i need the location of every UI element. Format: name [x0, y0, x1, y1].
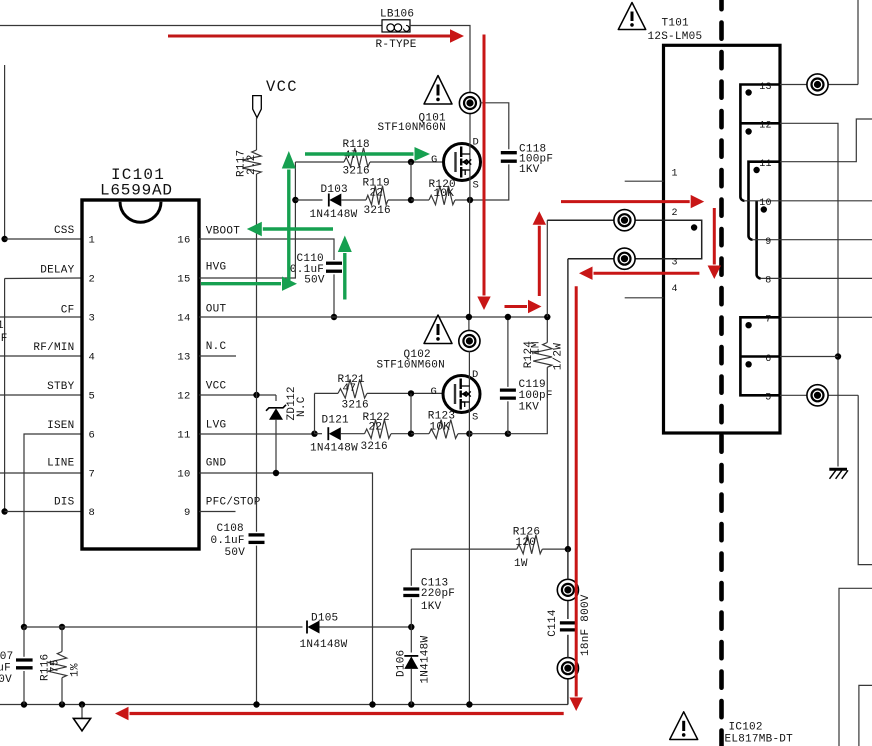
- svg-text:3: 3: [672, 258, 678, 269]
- svg-text:3216: 3216: [361, 441, 388, 453]
- svg-text:1%: 1%: [70, 663, 82, 677]
- red current arrow right to T101 pin2: [561, 200, 690, 203]
- wire row5 out: [780, 394, 858, 396]
- svg-text:D106: D106: [396, 650, 408, 677]
- svg-text:IC102: IC102: [729, 721, 763, 733]
- T101 winding 13-10: [740, 85, 780, 201]
- resistor R123: [429, 420, 458, 439]
- wire R122 to junction: [391, 433, 411, 435]
- svg-text:10: 10: [177, 469, 190, 481]
- svg-text:R-TYPE: R-TYPE: [376, 39, 417, 51]
- junction Q102 source: [466, 431, 472, 437]
- T101 polarity dots secondary: [745, 89, 751, 95]
- green arrow up C110 side: [343, 253, 346, 300]
- capacitor C110: [326, 262, 342, 265]
- wire R126 row: [411, 548, 517, 550]
- svg-text:7: 7: [765, 315, 771, 326]
- wire R119 to junction: [388, 199, 411, 201]
- transformer T101 body: [664, 45, 781, 433]
- svg-text:1N4148W: 1N4148W: [420, 635, 432, 683]
- red current arrow left from pin3: [594, 272, 700, 275]
- svg-text:VBOOT: VBOOT: [206, 226, 240, 238]
- svg-text:GND: GND: [206, 458, 227, 470]
- resistor R121: [338, 379, 367, 398]
- svg-text:EL817MB-DT: EL817MB-DT: [725, 733, 794, 745]
- svg-text:DELAY: DELAY: [40, 265, 74, 277]
- svg-text:11: 11: [759, 159, 772, 170]
- diode D105: [306, 621, 308, 634]
- svg-text:D121: D121: [322, 415, 350, 427]
- svg-text:1KV: 1KV: [421, 601, 442, 613]
- green arrow up HVG riser: [287, 170, 290, 287]
- transistor Q102: [443, 376, 480, 413]
- wire row11 out: [780, 119, 872, 162]
- svg-text:1: 1: [89, 235, 96, 247]
- wire row13 riser to top: [857, 0, 859, 85]
- svg-text:0.1uF: 0.1uF: [211, 535, 245, 547]
- svg-text:6: 6: [89, 430, 96, 442]
- wire C110 bottom to OUT: [333, 274, 335, 317]
- T101 pin1 stub: [625, 180, 664, 182]
- svg-text:10: 10: [759, 198, 772, 209]
- svg-text:3216: 3216: [364, 205, 391, 217]
- wire top rail to LB106: [0, 25, 382, 27]
- svg-text:10K: 10K: [430, 422, 451, 434]
- svg-text:VCC: VCC: [266, 78, 298, 96]
- wire row10 out: [745, 200, 872, 202]
- svg-text:1KV: 1KV: [519, 402, 540, 414]
- svg-text:3216: 3216: [343, 166, 370, 178]
- svg-text:T101: T101: [662, 18, 690, 30]
- junction R122/R123: [408, 431, 414, 437]
- svg-text:G: G: [431, 154, 438, 166]
- wire C119 bottom: [507, 401, 509, 433]
- svg-text:1KV: 1KV: [519, 164, 540, 176]
- node row13 marker: [807, 74, 828, 95]
- inductor LB106: [382, 20, 410, 32]
- junction gate2/R122: [408, 390, 414, 396]
- junction row12/row6: [835, 353, 841, 359]
- wire R121 to gate: [367, 392, 443, 394]
- wire OUT riser to T101 pin2: [546, 220, 548, 317]
- IC101 pin4 RF/MIN wire: [0, 355, 82, 357]
- junction rail/D106: [408, 701, 414, 707]
- wire C114 to R126 junction: [567, 549, 569, 580]
- wire Q101 source to row: [469, 181, 471, 201]
- T101 winding 6 tap: [740, 355, 780, 358]
- T101 winding 12 tap: [740, 122, 780, 125]
- resistor R119: [366, 186, 388, 205]
- svg-text:8: 8: [765, 276, 771, 287]
- svg-text:1/2W: 1/2W: [553, 343, 565, 371]
- IC101 pin13 N.C stub: [199, 355, 236, 357]
- svg-text:22: 22: [370, 187, 384, 199]
- wire D103 to R119: [341, 199, 366, 201]
- node C114 top test point: [557, 579, 578, 600]
- warning triangle T101: [618, 3, 645, 30]
- IC101 pin7 LINE wire: [0, 472, 82, 474]
- svg-text:D: D: [472, 369, 479, 381]
- svg-text:50V: 50V: [304, 275, 325, 287]
- svg-text:16: 16: [177, 235, 190, 247]
- junction C110/OUT: [331, 314, 337, 320]
- svg-text:DIS: DIS: [54, 497, 75, 509]
- wire D121 row: [315, 433, 323, 435]
- svg-text:2.2: 2.2: [246, 154, 258, 175]
- svg-text:LVG: LVG: [206, 420, 227, 432]
- wire ZD112 to GND wire: [275, 420, 277, 473]
- junction D105 row/R116: [59, 624, 65, 630]
- resistor R126: [517, 535, 543, 554]
- junction OUT/R124: [544, 314, 550, 320]
- IC102 warning triangle: [670, 712, 698, 740]
- T101 winding 7-5: [740, 317, 780, 395]
- node Q102 drain test point: [459, 330, 480, 351]
- wire HVG riser junction: [292, 197, 298, 203]
- T101 winding 10-8: [757, 201, 761, 279]
- junction VCC/R117: [253, 392, 259, 398]
- svg-text:CF: CF: [61, 305, 75, 317]
- wire gate row Q102: [315, 392, 339, 394]
- wire Q102 drain segment: [468, 351, 470, 376]
- IC101 pin5 STBY wire: [0, 394, 82, 396]
- junction rail/GND column: [369, 701, 375, 707]
- diode D106: [410, 627, 412, 653]
- wire row13 out: [780, 84, 858, 86]
- svg-text:STF10NM60N: STF10NM60N: [377, 360, 446, 372]
- transistor Q101: [444, 144, 481, 181]
- svg-text:15: 15: [177, 274, 190, 286]
- wire row6 out: [780, 356, 838, 358]
- power flag VCC: [253, 96, 262, 118]
- wire VCC to R117: [256, 118, 258, 150]
- junction OUT/Q102: [466, 314, 472, 320]
- svg-text:1N4148W: 1N4148W: [310, 209, 358, 221]
- svg-text:1: 1: [672, 169, 678, 180]
- junction rail/Q102 source: [466, 701, 472, 707]
- isolation barrier dashed line: [719, 0, 724, 746]
- wire R126 to C114: [542, 548, 568, 550]
- node pin3 marker: [614, 248, 635, 269]
- IC101 pin10 GND wire: [199, 473, 373, 704]
- red current long down C114 side: [575, 286, 578, 696]
- wire LB106 to Q101 drain: [410, 26, 470, 93]
- capacitor C118: [501, 151, 517, 154]
- green arrow left VBOOT: [263, 227, 333, 230]
- IC101 pin14 OUT wire: [199, 316, 547, 318]
- junction rail/R116: [59, 701, 65, 707]
- svg-text:50V: 50V: [225, 547, 246, 559]
- svg-text:STBY: STBY: [47, 381, 75, 393]
- junction rail/C108: [253, 701, 259, 707]
- wire Q101 drain segment: [469, 114, 471, 144]
- resistor R120: [429, 186, 455, 205]
- wire R122 link vertical: [410, 393, 412, 433]
- svg-text:C108: C108: [217, 523, 244, 535]
- wire Q102 source to row: [468, 412, 470, 433]
- svg-text:uF: uF: [0, 663, 11, 675]
- svg-text:D: D: [473, 137, 480, 149]
- red current arrow right to OUT: [505, 305, 528, 308]
- wire R123 to source: [458, 433, 469, 435]
- svg-text:1M: 1M: [531, 341, 543, 355]
- junction C119 bottom: [505, 431, 511, 437]
- svg-text:11: 11: [177, 430, 190, 442]
- svg-text:75: 75: [50, 659, 62, 673]
- wire source row to R124: [508, 401, 547, 434]
- svg-text:OUT: OUT: [206, 304, 227, 316]
- red current arrow down inside T101: [713, 208, 716, 265]
- wire R124 top link: [546, 317, 548, 343]
- svg-text:LB106: LB106: [380, 9, 414, 21]
- wire VCC pin down to C108: [256, 395, 258, 532]
- wire LVG to gate riser: [311, 431, 317, 437]
- wire T101 pin3 column to snubber: [567, 259, 569, 549]
- svg-text:22: 22: [369, 422, 383, 434]
- svg-text:14: 14: [177, 313, 190, 325]
- wire D105 row: [24, 626, 303, 628]
- resistor R124: [533, 343, 552, 368]
- wire gate row Q101: [295, 161, 344, 163]
- left vertical net at x=4 (CSS/DIS bus): [4, 65, 6, 239]
- capacitor C119: [500, 388, 516, 391]
- IC101 pin16 VBOOT wire to C110: [199, 239, 334, 260]
- svg-text:12: 12: [177, 391, 190, 403]
- svg-text:47: 47: [343, 383, 357, 395]
- svg-text:220pF: 220pF: [421, 588, 455, 600]
- junction ZD112/GND: [273, 470, 279, 476]
- svg-text:LINE: LINE: [47, 458, 75, 470]
- IC101 pin12 VCC wire: [199, 394, 276, 396]
- wire C113 column: [410, 549, 412, 586]
- svg-text:CSS: CSS: [54, 225, 75, 237]
- T101 winding 11-9: [749, 162, 781, 240]
- junction Q101 source: [467, 197, 473, 203]
- zener diode ZD112 (N.C): [266, 405, 286, 411]
- red current arrow up R124 side: [538, 226, 541, 296]
- IC101 pin8 DIS wire: [5, 511, 82, 513]
- node row5 marker: [807, 385, 828, 406]
- red current arrow down Q101: [483, 35, 486, 296]
- wire source row to C119: [469, 433, 508, 435]
- svg-text:1N4148W: 1N4148W: [300, 639, 348, 651]
- svg-text:F: F: [1, 333, 8, 345]
- green gate-drive arrow to Q101 gate: [305, 152, 414, 155]
- svg-text:120: 120: [516, 537, 537, 549]
- wire R120 to source: [455, 199, 470, 201]
- T101 pin4 stub: [625, 297, 664, 299]
- diode D103: [328, 194, 330, 207]
- svg-text:HVG: HVG: [206, 262, 227, 274]
- wire C114 segment: [567, 635, 569, 658]
- svg-text:1: 1: [0, 320, 4, 332]
- svg-text:3: 3: [89, 313, 96, 325]
- svg-text:13: 13: [177, 352, 190, 364]
- svg-text:4: 4: [672, 284, 678, 295]
- T101 pin2 wire (primary in): [547, 220, 701, 259]
- resistor R122: [365, 420, 392, 439]
- svg-text:N.C: N.C: [206, 341, 227, 353]
- svg-text:L6599AD: L6599AD: [100, 182, 173, 200]
- diode D121: [327, 427, 329, 440]
- junction R119/R120: [408, 197, 414, 203]
- resistor R117: [242, 150, 261, 174]
- svg-text:9: 9: [184, 507, 191, 519]
- wire junction to R120: [411, 199, 429, 201]
- svg-text:07: 07: [0, 651, 14, 663]
- svg-text:1W: 1W: [514, 558, 528, 570]
- svg-text:6: 6: [765, 354, 771, 365]
- IC101 pin9 PFC/STOP stub: [199, 511, 236, 513]
- wire R124 bottom link: [546, 367, 548, 401]
- red current arrow top (to half-bridge): [168, 35, 451, 38]
- svg-text:7: 7: [89, 469, 96, 481]
- junction D105/C113/D106: [408, 624, 414, 630]
- wire C113 bottom: [410, 599, 412, 627]
- svg-text:STF10NM60N: STF10NM60N: [378, 122, 447, 134]
- svg-text:1N4148W: 1N4148W: [310, 442, 358, 454]
- svg-text:5: 5: [89, 391, 96, 403]
- wire C108 to bottom rail: [256, 546, 258, 705]
- wire Q102 source to bottom rail: [468, 434, 470, 705]
- svg-text:D103: D103: [321, 184, 348, 196]
- svg-text:RF/MIN: RF/MIN: [33, 342, 74, 354]
- IC101 pin3 CF wire: [0, 316, 82, 318]
- bottom rail wire: [0, 704, 568, 706]
- junction DIS bus: [1, 508, 7, 514]
- svg-text:2: 2: [89, 274, 96, 286]
- IC102 box corner lower: [859, 685, 872, 746]
- wire C114 top segment: [567, 600, 569, 619]
- svg-text:18nF 800V: 18nF 800V: [580, 594, 592, 656]
- svg-text:S: S: [472, 412, 479, 424]
- green arrow right HVG: [201, 282, 281, 285]
- wire C114 column: [567, 679, 569, 705]
- svg-text:0V: 0V: [0, 674, 12, 686]
- capacitor C108: [249, 533, 265, 536]
- junction OUT/C119: [505, 314, 511, 320]
- wire row7 out: [780, 316, 872, 318]
- capacitor C107 (off-page): [23, 627, 25, 657]
- node pin2 marker: [614, 210, 635, 231]
- wire D106 to rail: [410, 669, 412, 705]
- svg-text:9: 9: [765, 237, 771, 248]
- T101 primary polarity dot: [691, 224, 697, 230]
- wire row8 out: [761, 277, 872, 279]
- wire R118 to gate: [370, 161, 444, 163]
- IC101 pin2 DELAY wire: [5, 277, 82, 280]
- svg-text:4: 4: [89, 352, 96, 364]
- wire Q101 source to OUT node: [469, 200, 471, 317]
- svg-text:5: 5: [765, 393, 771, 404]
- svg-text:2: 2: [672, 208, 678, 219]
- wire row5 riser down: [858, 395, 872, 564]
- wire C119 column top: [507, 317, 509, 387]
- wire row9 out: [753, 239, 872, 241]
- svg-text:N.C: N.C: [296, 396, 308, 417]
- resistor R118: [344, 148, 370, 167]
- svg-text:12: 12: [759, 121, 772, 132]
- wire C118 top tap: [480, 103, 509, 149]
- svg-text:S: S: [473, 180, 480, 192]
- wire junction to R123: [411, 433, 429, 435]
- IC101 body L6599AD: [82, 200, 199, 549]
- IC101 pin6 ISEN wire: [24, 434, 82, 627]
- warning triangle Q101: [424, 76, 452, 105]
- capacitor C113: [403, 587, 419, 590]
- warning triangle Q102: [424, 315, 452, 344]
- wire R117 to VCC pin: [256, 174, 258, 395]
- IC101 pin1 CSS wire: [5, 238, 82, 240]
- svg-text:12S-LM05: 12S-LM05: [648, 31, 703, 43]
- IC101 pin11 LVG wire: [199, 433, 315, 435]
- IC102 box corner upper: [839, 588, 872, 746]
- svg-text:10K: 10K: [434, 188, 455, 200]
- node C114 bottom test point: [557, 658, 578, 679]
- svg-text:ISEN: ISEN: [47, 420, 74, 432]
- svg-text:3216: 3216: [342, 400, 369, 412]
- junction R126/C114: [565, 546, 571, 552]
- svg-text:8: 8: [89, 507, 96, 519]
- IC101 notch: [120, 202, 161, 222]
- wire D121 to R122: [341, 433, 365, 435]
- resistor R116: [61, 627, 63, 652]
- junction CSS bus: [1, 236, 7, 242]
- junction D105 row/C107 column: [21, 624, 27, 630]
- svg-text:G: G: [430, 386, 437, 398]
- red current arrow bottom left: [130, 712, 564, 715]
- wire ZD112 branch from VCC: [275, 395, 277, 401]
- node Q101 drain test point: [459, 92, 480, 113]
- IC101 pin15 HVG wire: [199, 162, 295, 278]
- wire row12 to chassis ground: [780, 123, 838, 466]
- svg-text:C114: C114: [547, 609, 559, 637]
- wire OUT to Q102 drain: [468, 317, 470, 331]
- wire D103 row: [295, 199, 322, 201]
- svg-text:D105: D105: [311, 613, 338, 625]
- ground symbol (signal ground): [81, 705, 83, 719]
- svg-text:47: 47: [344, 150, 358, 162]
- junction rail/ground stub: [79, 701, 85, 707]
- wire C118 bottom to source row: [470, 164, 509, 200]
- svg-text:13: 13: [759, 82, 772, 93]
- capacitor C114: [560, 621, 576, 624]
- svg-text:PFC/STOP: PFC/STOP: [206, 497, 261, 509]
- junction gate/R119: [408, 159, 414, 165]
- chassis ground symbol: [829, 468, 847, 471]
- wire D105 to C113 column: [320, 626, 412, 628]
- svg-text:VCC: VCC: [206, 381, 227, 393]
- wire R119 link vertical: [410, 162, 412, 200]
- junction rail/C107: [21, 701, 27, 707]
- svg-text:R123: R123: [428, 410, 455, 422]
